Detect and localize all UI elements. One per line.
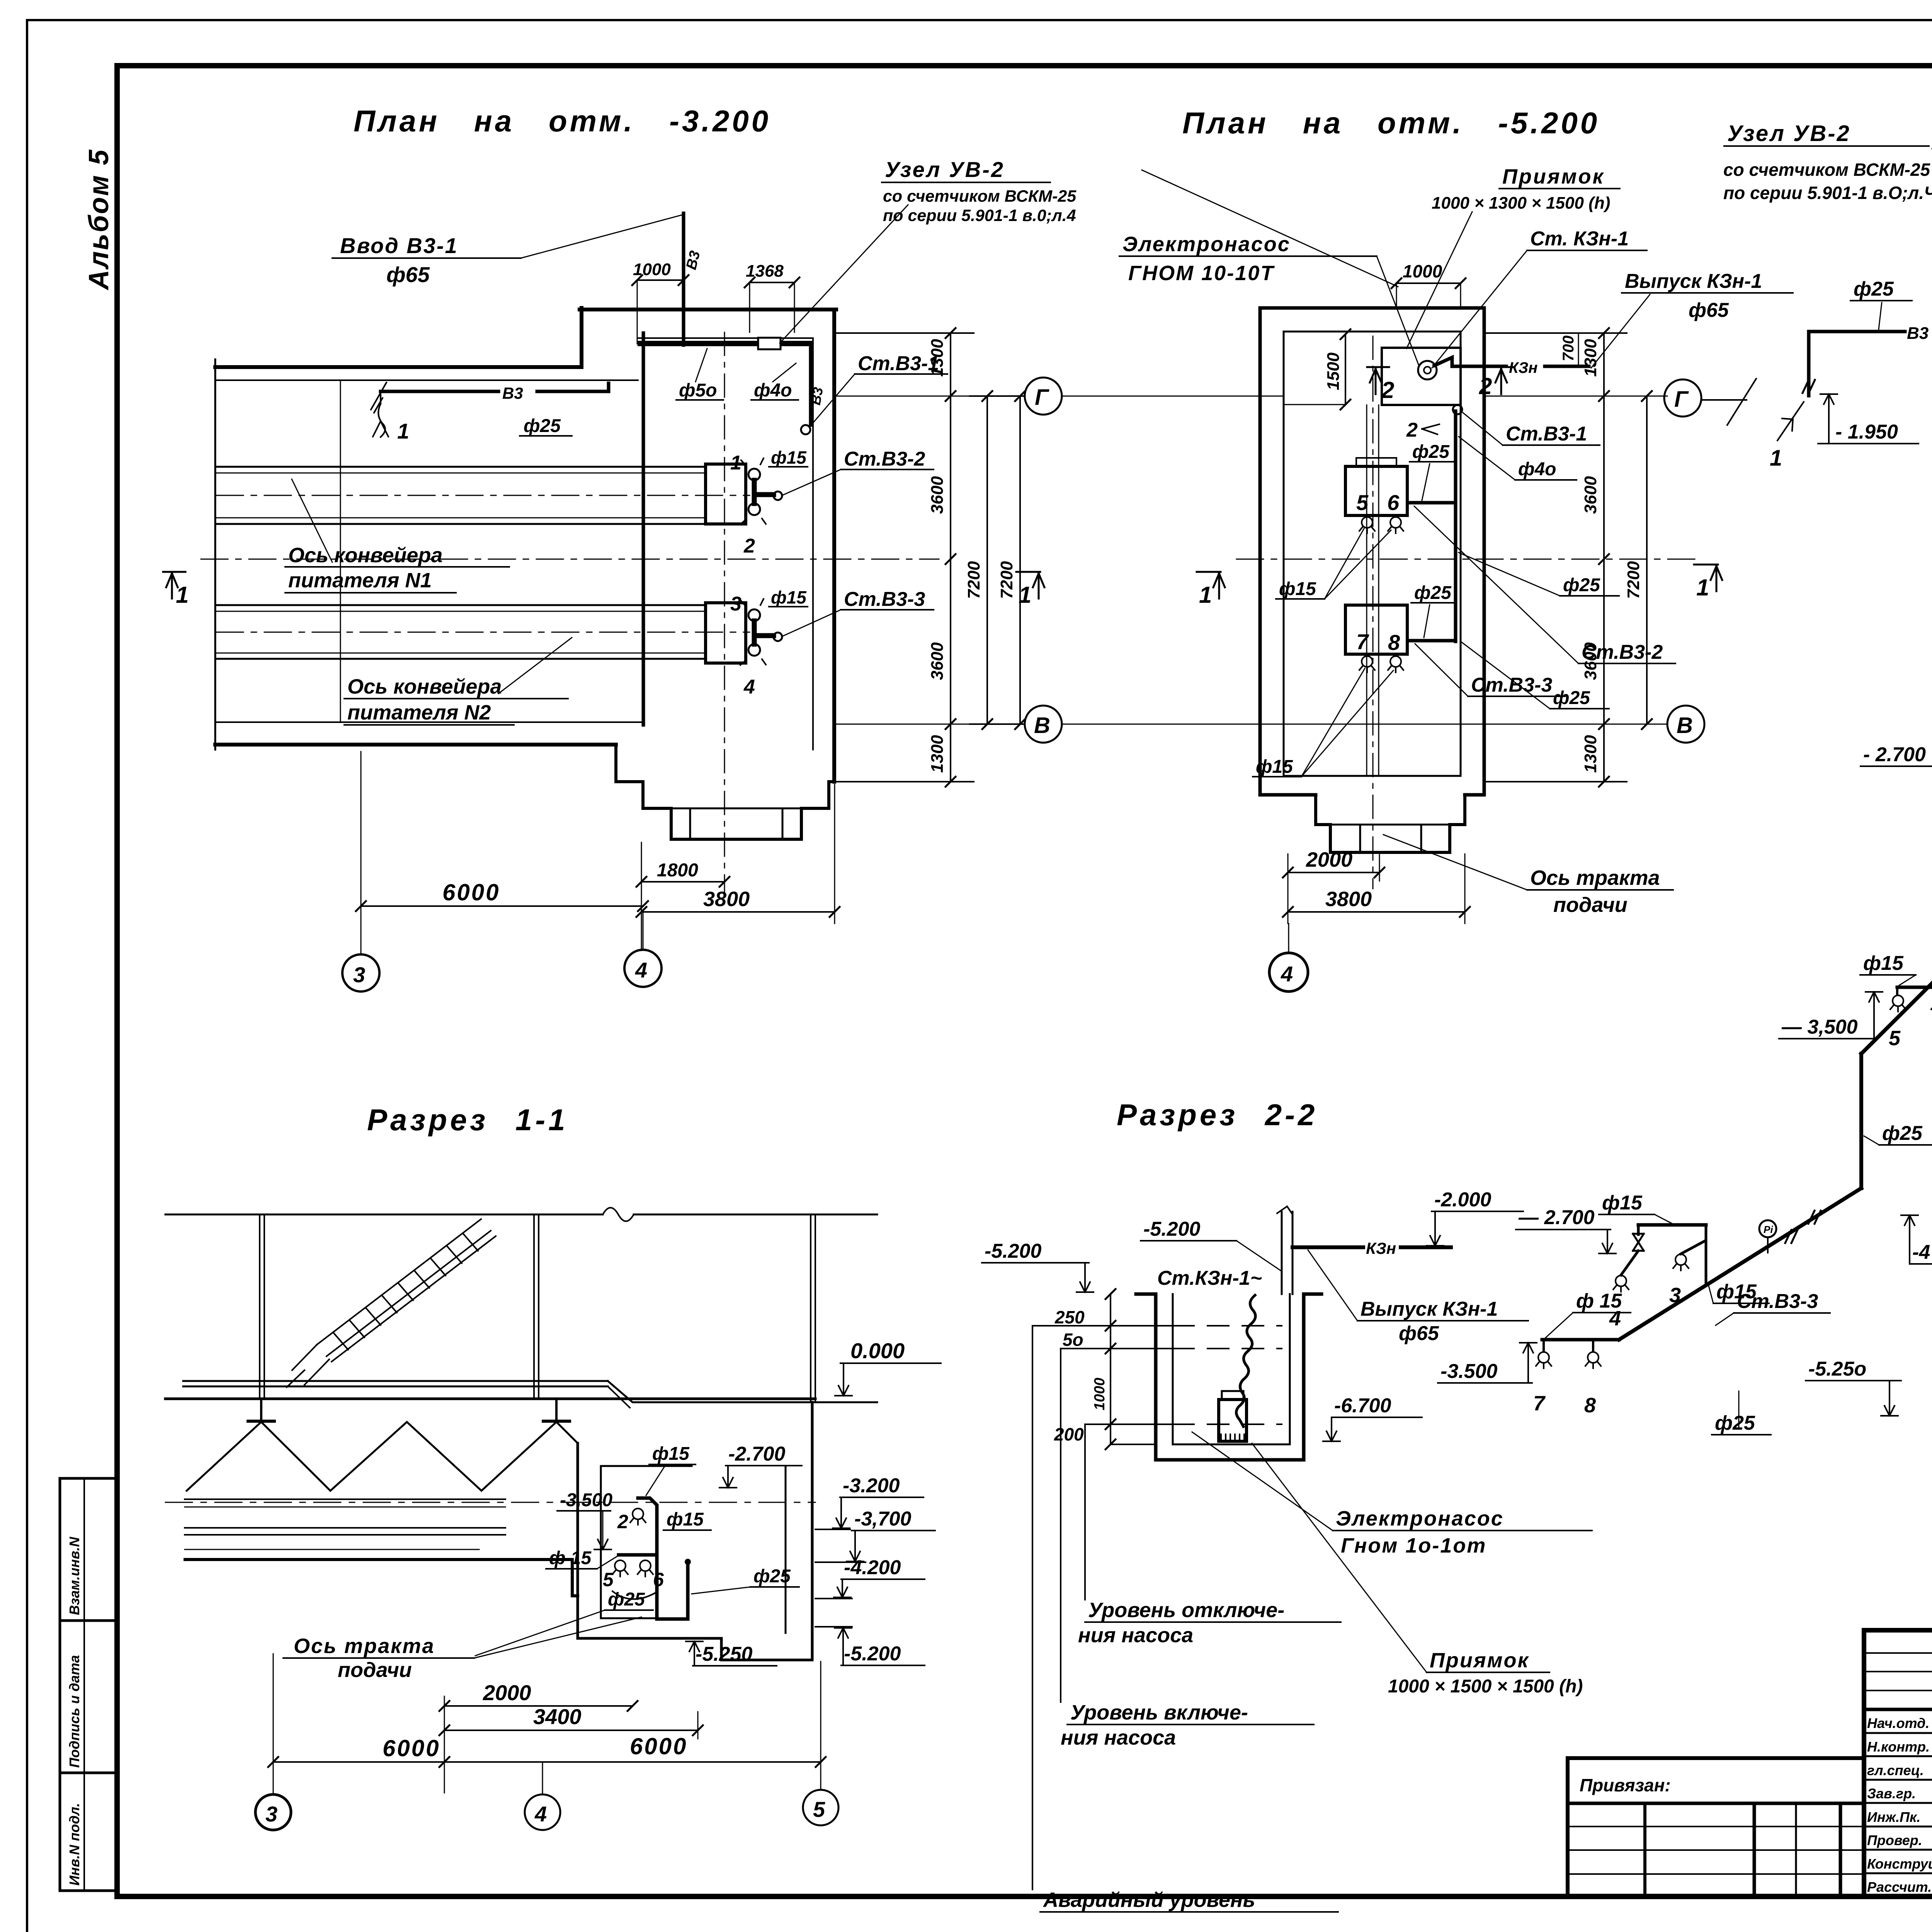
svg-text:6000: 6000 [442,879,500,905]
plan2 kzn pipe [1434,357,1589,366]
left margin table [60,1478,117,1891]
plan2 outer walls [1260,308,1484,852]
sec1 screw zigzag [187,1422,578,1491]
svg-text:Провер.: Провер. [1867,1832,1922,1848]
svg-text:Приямок: Приямок [1430,1649,1529,1672]
plan2 riser main vertical [1454,411,1458,641]
svg-text:1: 1 [1770,446,1782,471]
svg-text:6: 6 [653,1569,664,1590]
svg-text:ф25: ф25 [1715,1412,1755,1434]
plan1 feeder box 2 [706,603,746,663]
plan1 right dim chain [836,333,1020,782]
svg-text:по серии 5.901-1 в.О;л.Ч: по серии 5.901-1 в.О;л.Ч [1723,183,1932,203]
svg-text:ф4о: ф4о [754,380,792,401]
svg-text:1000: 1000 [633,260,671,279]
svg-text:1: 1 [176,582,189,608]
plan1 axis circle 3 [361,906,362,953]
plan1 water meter box [758,338,781,349]
plan1 axis label leader osk1 [285,479,509,593]
svg-text:Ст.В3-3: Ст.В3-3 [1737,1290,1818,1313]
sec1 -4.200 mark [815,1556,925,1599]
svg-text:1800: 1800 [657,860,698,881]
plan2 electronasos label [1119,233,1419,366]
plan1 wall pipe run [640,341,811,346]
svg-text:ф15: ф15 [1602,1192,1643,1214]
plan1 axis line G [836,396,1024,397]
svg-text:-3,700: -3,700 [854,1508,912,1530]
plan2 sun circles under box1 [1359,517,1375,533]
svg-text:со счетчиком ВСКМ-25: со счетчиком ВСКМ-25 [1723,160,1931,180]
v3 5-6 assembly [1897,986,1932,989]
svg-text:7200: 7200 [1624,561,1643,599]
plan2 stub pipe 1 [1410,501,1456,505]
plan1 hall top wall [215,308,836,839]
svg-text:В: В [1677,713,1693,738]
svg-text:Рассчит.: Рассчит. [1867,1879,1932,1895]
sec1 f15 left label [546,1548,618,1569]
sec2 pit inner walls [1173,1294,1290,1444]
svg-text:3: 3 [265,1802,277,1826]
svg-text:7200: 7200 [964,561,983,599]
svg-text:-3.200: -3.200 [843,1475,900,1497]
plan1 f25 label [520,416,572,436]
svg-text:5: 5 [1889,1027,1901,1050]
svg-text:Ст.В3-1: Ст.В3-1 [1506,423,1587,445]
sec1 -3.700 mark [815,1508,935,1562]
svg-text:3: 3 [353,963,365,987]
plan1 axis label leader osk2 [344,638,572,725]
svg-text:-2.700: -2.700 [728,1443,786,1465]
sec2 standpipe [1281,1212,1283,1294]
svg-text:3600: 3600 [1581,476,1600,514]
plan2 pit rect [1382,348,1461,405]
sec1 os trakta label [283,1617,641,1682]
plan2 f40 label [1459,437,1577,480]
svg-text:250: 250 [1054,1307,1085,1327]
svg-text:ф 15: ф 15 [549,1548,592,1568]
plan1 pipe end hatch [371,383,386,413]
svg-text:Pi: Pi [1764,1224,1773,1235]
svg-text:ф15: ф15 [1256,757,1293,777]
svg-text:3600: 3600 [1581,642,1600,680]
plan2 stub pipe 2 [1410,639,1456,643]
svg-text:Ст.В3-1: Ст.В3-1 [858,352,939,375]
plan2 section mark 2 right [1493,367,1515,394]
plan2 tract lines [1366,405,1367,776]
svg-text:Узел УВ-2: Узел УВ-2 [885,157,1005,182]
svg-text:- 2.700: - 2.700 [1863,743,1926,766]
plan2 uzel uv2 leader [1142,170,1398,287]
plan2 st.v3-3 label [1415,644,1565,696]
plan2 dim 1500 [1284,329,1350,410]
sec1 -3.500 mark [557,1490,612,1549]
sec1 ground floor [165,1398,815,1400]
v3 f15 label right of 3-4 [1708,1281,1769,1303]
svg-text:Ось тракта: Ось тракта [1530,866,1660,889]
svg-text:Ось конвейера: Ось конвейера [347,675,502,698]
svg-text:-2.000: -2.000 [1434,1189,1492,1211]
svg-text:6000: 6000 [630,1733,687,1759]
sec1 f25 label right [692,1566,799,1594]
svg-text:Привязан:: Привязан: [1580,1775,1671,1795]
svg-text:Ст.В3-3: Ст.В3-3 [1471,674,1552,696]
plan1 annex top wall [580,308,836,311]
svg-text:1300: 1300 [928,735,947,773]
sec1 pit inner [601,1466,786,1633]
svg-text:Ось конвейера: Ось конвейера [288,544,442,567]
plan2 axis circle 4 [1288,923,1289,953]
svg-text:ния насоса: ния насоса [1078,1624,1193,1647]
plan1 bottom dim 6000 [356,752,648,954]
svg-text:Приямок: Приямок [1502,165,1605,188]
sec1 pipe in pit [638,1498,688,1619]
v3 f15 label 3-4 [1599,1192,1673,1224]
svg-text:-5.200: -5.200 [844,1643,901,1665]
plan1 conveyor band 1 [216,467,750,524]
svg-text:гл.спец.: гл.спец. [1867,1762,1924,1778]
svg-text:Ст.КЗн-1~: Ст.КЗн-1~ [1157,1267,1262,1289]
svg-text:-5.250: -5.250 [696,1643,753,1665]
stamp row labels [1867,1715,1932,1895]
plan2 f25 label above box2 [1411,583,1455,638]
v3 -2.700 mark [1861,743,1932,793]
plan2 f25 label right [1459,553,1619,596]
svg-text:— 2.700: — 2.700 [1518,1206,1595,1229]
svg-text:7200: 7200 [997,561,1016,599]
svg-text:5: 5 [813,1797,825,1821]
plan2 priyamok label [1406,165,1620,349]
sec1 brace under 5-6 [612,1591,657,1599]
svg-text:ф25: ф25 [608,1589,645,1610]
plan1 dim 1000 [632,260,689,344]
plan1 left end wall [214,359,216,750]
plan1 axis3 grid line [340,380,341,722]
v3 uzel uv2 block [1723,121,1932,279]
svg-text:по серии 5.901-1 в.0;л.4: по серии 5.901-1 в.0;л.4 [883,206,1076,225]
svg-text:Нач.отд.: Нач.отд. [1867,1715,1929,1731]
plan1 feed shaft outline [616,745,834,839]
svg-text:Уровень включе-: Уровень включе- [1070,1701,1248,1724]
plan1 bottom dim 1800 [636,842,730,951]
plan2 shaft centerline [1372,336,1374,889]
svg-text:Ввод В3-1: Ввод В3-1 [340,233,458,258]
svg-text:питателя N2: питателя N2 [347,701,491,724]
sec1 dim 2000 [439,1680,638,1716]
svg-text:1: 1 [1199,582,1212,608]
svg-text:3400: 3400 [533,1704,582,1729]
sec1 f15 top label [646,1444,696,1495]
plan1 st.v3-1 label [810,352,947,427]
plan2 f25 label mid [1410,442,1454,500]
shared axis circle G [1025,378,1062,415]
svg-text:Ст.В3-3: Ст.В3-3 [844,588,925,611]
plan1 shaft axis centerline [724,332,725,896]
svg-text:ф65: ф65 [386,262,430,287]
v3 f25 label lower [1864,1122,1932,1145]
sec2 emergency level label [1032,1326,1338,1912]
plan2 dim 700 [1578,333,1579,365]
plan1 axis line V [836,724,1024,725]
svg-text:2: 2 [1381,377,1394,403]
svg-text:8: 8 [1388,630,1400,655]
svg-text:ф 15: ф 15 [1576,1290,1622,1312]
svg-text:Ст.В3-2: Ст.В3-2 [844,448,925,470]
svg-text:Г: Г [1035,385,1049,410]
svg-text:Узел УВ-2: Узел УВ-2 [1727,121,1851,146]
svg-text:Альбом 5: Альбом 5 [83,149,114,291]
svg-text:-5.200: -5.200 [1143,1218,1201,1240]
v3 -4.200 mark left [1901,1215,1932,1264]
svg-text:3600: 3600 [928,476,947,514]
svg-text:3800: 3800 [1325,888,1372,911]
sec2 -6.700 mark [1323,1395,1422,1441]
plan2 f15 label lower [1253,668,1393,777]
svg-text:ГНОМ 10-10Т: ГНОМ 10-10Т [1128,262,1275,285]
svg-text:Уровень отключе-: Уровень отключе- [1088,1599,1284,1622]
svg-text:В: В [1034,713,1050,738]
plan2 pump circle [1418,361,1437,379]
svg-text:В3: В3 [502,384,523,402]
svg-text:ф65: ф65 [1399,1322,1439,1345]
svg-text:-4.200: -4.200 [844,1556,901,1579]
svg-text:4: 4 [743,676,755,698]
svg-text:со счетчиком ВСКМ-25: со счетчиком ВСКМ-25 [883,187,1077,206]
v3 axis tick [1702,379,1756,425]
svg-text:Взам.инв.N: Взам.инв.N [66,1536,82,1615]
svg-text:Разрез 2-2: Разрез 2-2 [1117,1098,1318,1132]
sec1 -3.200 mark [815,1475,923,1529]
v3 -2.700 mark low [1516,1206,1616,1253]
plan2 dim 1000 [1391,261,1466,309]
plan2 axis lines right [1486,396,1667,397]
sec1 f25 label low [475,1589,653,1656]
svg-text:Электронасос: Электронасос [1336,1507,1504,1530]
sec1 dim 6000 6000 [268,1654,826,1793]
svg-text:Аварийный уровень: Аварийный уровень [1043,1888,1255,1912]
privyazan table [1568,1758,1864,1896]
sec1 lower floor [185,1560,578,1596]
svg-text:План на отм. -5.200: План на отм. -5.200 [1182,106,1600,140]
v3 st v3-3 label [1716,1290,1830,1325]
sec1 sun circles 5 6 [612,1560,628,1577]
sec1 columns [259,1214,260,1399]
svg-text:1000 × 1500 × 1500 (h): 1000 × 1500 × 1500 (h) [1388,1676,1583,1697]
svg-text:4: 4 [1281,962,1293,986]
v3 diagonal 2 [1861,575,1932,1054]
svg-text:2000: 2000 [1306,848,1352,871]
v3 -3.500 mark low [1438,1343,1537,1383]
plan2 f25 label lower right [1461,641,1609,709]
svg-text:-5.200: -5.200 [985,1240,1042,1262]
svg-text:1: 1 [397,419,409,443]
sec1 -2.700 mark [719,1443,802,1488]
svg-text:700: 700 [1560,335,1577,361]
svg-text:3800: 3800 [703,888,750,911]
plan1 riser f15 labels [769,447,808,468]
v3 f25 label [1850,278,1912,329]
plan2 feeder box 2 [1345,605,1407,654]
svg-text:Разрез 1-1: Разрез 1-1 [367,1103,568,1137]
svg-text:ф25: ф25 [1563,575,1600,595]
svg-text:питателя N1: питателя N1 [288,569,432,592]
v3 left tail riser [1807,332,1811,396]
svg-text:ф25: ф25 [753,1566,791,1587]
plan1 inlet pipe V3-1 [682,213,685,345]
sec2 hose wavy [1236,1295,1255,1427]
title block stamp [1864,1630,1932,1896]
svg-text:Гном 1о-1от: Гном 1о-1от [1341,1534,1486,1557]
plan2 cut line 1-1 [1236,559,1700,560]
plan2 section mark 1 left [1197,572,1225,599]
svg-text:Н.контр.: Н.контр. [1867,1739,1930,1755]
plan1 shaft inner lines [671,808,801,810]
plan2 feeder box 1 [1345,466,1407,515]
v3 -1.950 mark [1818,394,1918,444]
svg-text:ф25: ф25 [524,416,561,436]
plan2 bottom dim 3800 [1283,854,1470,923]
svg-text:ф15: ф15 [652,1444,690,1464]
plan1 vvod label [332,215,682,287]
svg-text:Выпуск КЗн-1: Выпуск КЗн-1 [1625,270,1762,293]
plan1 st.v3-3 label [782,588,934,636]
plan2 right dim chain [1486,333,1647,782]
svg-text:1368: 1368 [746,262,784,281]
svg-text:8: 8 [1584,1394,1596,1417]
plan2 inner walls [1284,332,1461,776]
svg-text:2: 2 [743,535,755,557]
v3 left tail break [1803,380,1815,393]
svg-text:КЗн: КЗн [1366,1239,1396,1257]
sec1 upper floor [183,1381,877,1408]
sec2 kzn pipe [1293,1245,1363,1249]
svg-text:0.000: 0.000 [850,1338,905,1363]
svg-text:В3: В3 [1907,324,1929,343]
svg-text:2: 2 [1406,419,1418,441]
svg-text:Г: Г [1674,387,1689,412]
svg-text:1000: 1000 [1403,261,1442,281]
svg-text:ф25: ф25 [1414,583,1452,603]
sec1 f15 right label [663,1509,711,1530]
svg-text:ф25: ф25 [1553,688,1590,708]
sec1 stair flight [287,1219,496,1387]
svg-text:4: 4 [635,958,647,982]
svg-text:ф15: ф15 [1863,952,1904,975]
svg-text:ф65: ф65 [1689,299,1729,321]
svg-text:ф5о: ф5о [679,380,717,401]
svg-text:-5.25о: -5.25о [1808,1358,1866,1380]
svg-text:1: 1 [730,452,742,474]
plan1 dim 1368 [745,262,799,332]
plan1 pipe end figure [373,404,388,437]
sec2 left dim chain [1111,1294,1173,1444]
v3 -5.250 mark low [1806,1358,1901,1416]
v3 f15 label 7-8 [1546,1290,1631,1338]
svg-text:1300: 1300 [1581,735,1600,773]
sec2 level on label [1061,1349,1314,1749]
uzel uv-2 shared block [780,157,1077,343]
plan1 right wall [832,310,836,782]
svg-text:2000: 2000 [483,1680,531,1705]
plan1 f50 label [676,349,723,401]
plan2 st kzn-1 label [1432,228,1647,368]
sec1 axis circle 5 [803,1790,838,1825]
plan2 axis lines to building [1063,396,1284,397]
v3 f25 bottom mark [1712,1391,1771,1435]
sec1 dim 3400 [439,1704,703,1739]
svg-text:-6.700: -6.700 [1334,1395,1391,1417]
svg-text:ф25: ф25 [1882,1122,1923,1145]
plan2 feed shaft [1316,795,1465,852]
plan1 f40 label [751,363,798,401]
plan1 feeder box 1 [706,464,746,524]
svg-text:ф4о: ф4о [1518,459,1556,480]
plan1 conveyor band 2 [216,605,750,659]
svg-text:5: 5 [603,1569,614,1590]
plan1 room inner west wall [642,333,645,725]
plan1 axis circle 4 [643,912,644,950]
svg-text:3: 3 [1669,1284,1681,1307]
plan1 room inner top line [638,337,813,339]
svg-text:200: 200 [1054,1424,1084,1444]
svg-text:Ст. КЗн-1: Ст. КЗн-1 [1530,228,1629,250]
plan2 st.v3-1 label [1463,413,1600,445]
svg-text:ния насоса: ния насоса [1061,1726,1176,1749]
plan2 os trakta label [1383,835,1673,917]
svg-text:1500: 1500 [1324,352,1343,390]
svg-text:3600: 3600 [928,642,947,680]
plan1 main pipe [381,383,609,391]
plan1 section mark 1 left [163,572,185,599]
sec1 axis circle 4 [525,1794,560,1830]
v3 diagonal 3 [1619,1188,1861,1340]
sec2 priyamok label [1252,1443,1583,1697]
plan2 bottom dim 2000 [1283,848,1384,881]
plan1 annex left wall [580,308,583,367]
plan1 riser st v3-2 [740,458,782,524]
plan2 left dim chain [970,396,1024,724]
svg-text:В3: В3 [808,386,826,406]
svg-text:ф15: ф15 [667,1509,704,1530]
v3 7-8 assembly [1542,1338,1619,1342]
v3 3-4 subassembly [1638,1223,1706,1227]
svg-text:2: 2 [617,1511,628,1532]
svg-text:Выпуск КЗн-1: Выпуск КЗн-1 [1361,1298,1498,1320]
svg-text:ф25: ф25 [1854,278,1894,300]
plan2 st.v3-2 label [1414,506,1675,663]
plan2 axis circle G right [1664,379,1701,417]
svg-text:7: 7 [1356,629,1369,654]
plan1 st.v3-2 label [782,448,934,495]
sec1 screw posts [248,1400,570,1422]
sec1 stub pipe [619,1553,657,1557]
sec1 sun circle 2 [630,1509,646,1525]
svg-text:ф15: ф15 [771,587,807,607]
svg-text:ф15: ф15 [771,447,807,468]
sec1 0.000 mark [835,1338,941,1396]
svg-text:-3.500: -3.500 [1440,1360,1498,1383]
svg-text:Подпись и дата: Подпись и дата [66,1655,82,1768]
svg-text:Конструи: Конструи [1867,1856,1932,1872]
v3 gauge on diagonal 3 [1759,1220,1776,1237]
plan1 bottom dim 3800 [636,784,840,923]
sec1 -5.250 mark [686,1641,777,1666]
plan1 hall bottom wall [215,721,643,723]
plan2 riser top circle [1453,405,1462,414]
svg-text:Инж.Пк.: Инж.Пк. [1867,1809,1920,1825]
svg-text:-3,500: -3,500 [560,1490,612,1510]
v3 main pipe left [1809,330,1905,333]
plan2 axis circle V right [1667,706,1704,743]
